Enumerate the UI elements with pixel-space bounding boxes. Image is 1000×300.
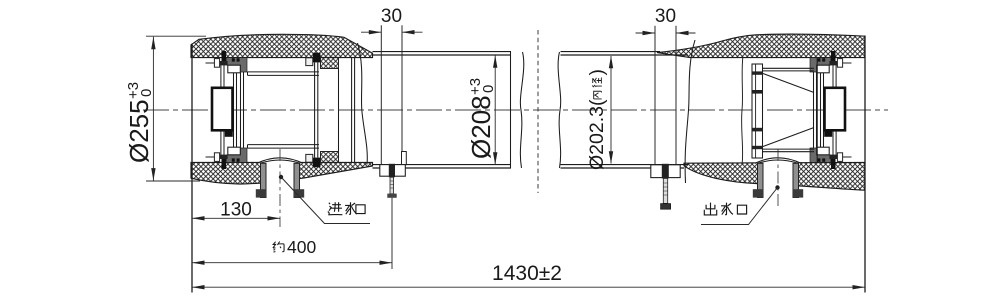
left face line — [191, 44, 193, 293]
left mid ring rubber blocks — [321, 57, 339, 68]
left clamp bolt extension to dim — [391, 198, 393, 269]
left end cap internals — [206, 51, 248, 169]
svg-text:Ø208: Ø208 — [466, 95, 496, 159]
right horn column rungs — [752, 71, 763, 74]
pipe left break S-curve — [520, 52, 523, 168]
svg-text:1430±2: 1430±2 — [492, 262, 562, 285]
left mid ring washers — [306, 58, 313, 66]
left mid ring bolts — [313, 53, 321, 63]
dim Ø208 text — [466, 78, 497, 159]
left clamp band lines — [381, 25, 402, 165]
right clamp bolt shaft — [663, 178, 667, 203]
right clamp bracket — [651, 165, 680, 178]
left mid ring plates — [315, 58, 355, 162]
pipe left segment walls — [373, 52, 512, 168]
dim 130 — [192, 217, 280, 219]
outlet nozzle dome arc — [755, 158, 801, 164]
dim 1430±2 — [192, 286, 865, 288]
dim Ø255 text — [124, 82, 155, 163]
pipe left break line — [510, 52, 512, 168]
dim 30 left — [361, 31, 381, 33]
svg-text:0: 0 — [138, 89, 155, 97]
left clamp bracket — [380, 165, 406, 177]
left top hatched band — [191, 34, 373, 57]
svg-text:30: 30 — [655, 6, 676, 27]
right end cap internals (mirrored) — [810, 51, 852, 169]
right inner face plate — [816, 58, 818, 162]
outlet nozzle walls — [758, 163, 764, 197]
label 出水口 leader — [701, 188, 778, 225]
right bottom hatched band — [684, 162, 865, 190]
right socket bell curve — [685, 40, 695, 183]
inlet nozzle walls — [261, 163, 267, 197]
left bottom hatched band — [191, 162, 373, 184]
svg-text:Ø202.3(: Ø202.3( — [586, 99, 608, 170]
pipe right segment walls — [561, 52, 689, 168]
left lamp sleeve tube — [248, 72, 320, 148]
right clamp band lines — [655, 26, 676, 165]
left socket bell curve — [358, 43, 368, 165]
dim Ø202.3 line and arrows — [610, 56, 612, 164]
right liner wavy edge — [742, 58, 743, 163]
outlet nozzle centerline — [777, 149, 779, 209]
dim 30 right — [636, 32, 656, 34]
svg-text:30: 30 — [381, 6, 402, 27]
dim Ø255 extension lines — [146, 35, 206, 37]
dim Ø202.3(内径) text — [586, 69, 608, 170]
left clamp step tab — [402, 152, 407, 165]
svg-text:400: 400 — [287, 237, 316, 257]
main horizontal centerline — [143, 109, 888, 111]
right horn plates and cone — [763, 68, 815, 151]
dim Ø255 line and arrows — [152, 37, 154, 181]
right reflector horn column — [752, 64, 763, 158]
dim 约400 — [192, 262, 392, 264]
label 进水口 leader — [281, 177, 370, 224]
hidden dashed line at pipe break — [537, 30, 539, 193]
inlet nozzle centerline — [279, 149, 281, 227]
inlet nozzle dome arc — [257, 158, 303, 164]
svg-text:Ø255: Ø255 — [124, 99, 154, 163]
svg-text:): ) — [586, 69, 608, 76]
left clamp bolt shaft — [390, 177, 394, 194]
svg-text:0: 0 — [480, 85, 497, 93]
pipe right break S-curve — [558, 52, 561, 168]
inlet nozzle white cut — [260, 161, 299, 198]
outlet nozzle white cut — [757, 161, 798, 198]
dim Ø208 line and arrows — [494, 56, 496, 165]
right face line — [864, 36, 866, 293]
svg-text:130: 130 — [220, 200, 252, 221]
right top hatched band — [657, 34, 865, 57]
